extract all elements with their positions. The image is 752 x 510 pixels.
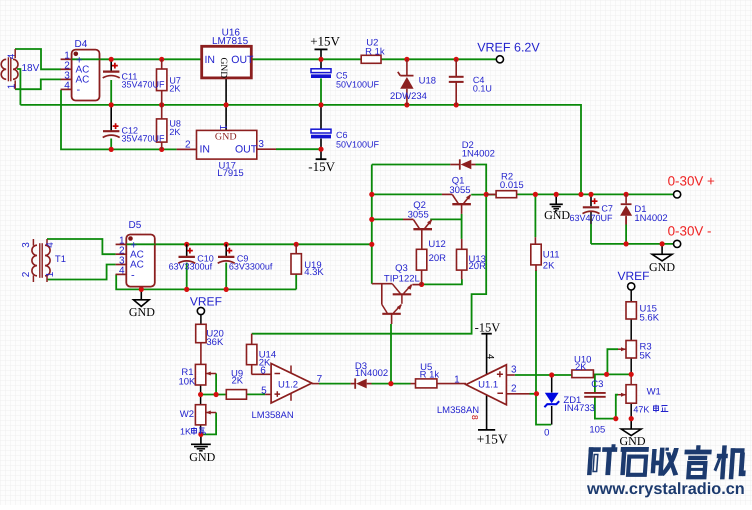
resistor U2 R 1k [361,55,381,63]
svg-text:GND: GND [620,434,646,448]
svg-text:2: 2 [21,271,32,277]
C7 plus [592,198,598,204]
svg-text:GND: GND [218,58,228,79]
svg-text:0.1U: 0.1U [473,83,492,93]
bridge rectifier D5 [126,235,155,287]
lead U14 bottom [251,365,253,375]
wire raw + rail D5 pin1 to bus [127,243,372,245]
wire U9 to U1.2 pin5 [247,393,266,395]
svg-text:3: 3 [21,242,32,248]
wire D2 cathode down to emitter node [476,165,487,195]
junction (407,105) [404,102,409,107]
svg-text:1: 1 [6,83,17,89]
lead U20 to R1 [200,343,202,365]
svg-text:50V100UF: 50V100UF [336,139,380,149]
resistor U15 5.6K [626,302,636,319]
ground GND triangle under W1 [630,419,632,429]
svg-text:LM7815: LM7815 [212,36,249,47]
lead D1 bottom stub [625,217,627,225]
wire raw + vertical bus x=372 [371,165,373,284]
lead U7 bottom [161,91,163,105]
svg-text:OUT: OUT [231,54,254,66]
C10 plates [179,256,195,258]
svg-text:U11: U11 [543,250,560,261]
lead W2 bottom [200,425,202,435]
wire U17 OUT to -15V node [276,148,321,150]
svg-text:1: 1 [454,375,460,386]
lead U13 top [461,239,463,249]
capacitor C11 35V470UF [103,70,119,72]
D2 body [459,159,461,169]
svg-text:7: 7 [317,374,323,385]
junction (662,244) [660,241,665,246]
wire C9 bottom lead [225,263,227,290]
lead Q2 collector [403,218,413,220]
wire R1 bottom node to U9 [201,394,227,396]
svg-text:47K: 47K [633,405,649,415]
svg-text:GND: GND [215,131,237,142]
lead U15 to R3 [630,319,632,341]
transformer T1 [32,245,37,276]
junction (391,384) [388,381,393,386]
svg-text:T1: T1 [55,254,66,265]
zener diode U18 2DW234 [406,59,408,75]
potentiometer R3 5K [626,341,636,359]
wire raw - rail D5 pin4 under caps [116,274,296,289]
wire U13 bottom to Q3 emitter node [422,279,462,284]
svg-text:63V470UF: 63V470UF [570,213,614,223]
junction (616,419) [613,416,618,421]
wire Q1 base down to U13 top [461,214,463,239]
U1.1 pin3 stub [506,374,514,376]
junction (226,105) [224,102,229,107]
junction (536,394) [534,391,539,396]
wire feedback from emitter node to U14 [252,194,487,333]
U1.2 pin8 stub [290,366,292,374]
wire C3 top lead [594,375,596,392]
junction (226,289) [224,287,229,292]
junction (552,375) [549,372,554,377]
U1.1 pin1 wire [437,383,466,385]
svg-text:10K: 10K [178,376,196,387]
junction (407,59) [404,57,409,62]
lead C11 top (black) [110,59,112,71]
junction (556,194) [554,192,559,197]
U17 pin2 stub [177,148,197,150]
wire C7 bottom lead [590,224,592,244]
svg-text:GND: GND [649,260,675,274]
junction (372,244) [369,242,374,247]
svg-text:L7915: L7915 [217,168,243,179]
svg-text:1N4002: 1N4002 [355,368,388,379]
wire T2 pin1 to D4 pin3 [15,79,61,89]
svg-text:4: 4 [45,242,56,248]
junction (201,434) [198,432,203,437]
junction (372,219) [369,217,374,222]
svg-text:63V3300uf: 63V3300uf [229,262,273,272]
wire center tap down to 0V rail [17,69,20,105]
potentiometer R1 10K [195,364,205,385]
wire U19 bottom lead [295,274,297,289]
lead R2 left [486,193,496,195]
U17 pin3 stub [257,148,276,150]
svg-text:0: 0 [544,427,549,438]
label 47K dianya [654,405,669,413]
svg-text:6: 6 [260,365,266,376]
lead W1 top [630,374,632,384]
watermark logo kuang shi shou yin ji [587,444,748,479]
VREF terminal stub right [630,290,632,302]
lead U7 top [161,59,163,69]
svg-text:GND: GND [189,450,215,464]
svg-text:3055: 3055 [408,209,429,220]
ground GND triangle at -OUT [661,244,663,254]
transistor Q1 3055 [452,203,471,205]
svg-text:2: 2 [511,384,517,395]
op-amp U1.1 LM358AN [466,365,506,405]
ground GND earth at output rail [555,194,557,204]
U1.1 pin2 stub [506,393,529,395]
junction (456,59) [454,57,459,62]
wire D4 + output through symbol [72,58,100,60]
lead Q1 collector [442,193,452,195]
wire U11 bottom to U1.1 pin2 and ZD1 return [536,270,551,425]
lead U11 bottom [535,265,537,271]
lead Q1 base [461,204,463,214]
svg-text:4: 4 [6,53,17,59]
terminal VREF 6.2V [496,56,503,63]
ground GND earth under W2 [200,434,202,444]
junction (162,149) [159,147,164,152]
capacitor C4 0.1U [455,59,457,76]
junction (321,105) [318,102,323,107]
wire C11 bottom lead [110,80,112,105]
wire bus to Q1 collector [372,193,442,195]
resistor U5 R 1k [416,379,437,388]
resistor U19 4.3K [291,254,301,274]
junction (631,419) [629,416,634,421]
junction (187,244) [184,242,189,247]
svg-text:5.6K: 5.6K [640,313,660,324]
bar +15V [315,48,328,50]
regulator U17 L7915 [197,130,257,159]
capacitor C9 63V3300uf [225,244,227,256]
D5 pin 2 stub [116,253,127,255]
svg-text:Q3: Q3 [395,263,408,274]
lead C12 top (black) [110,105,112,131]
svg-text:18V: 18V [22,63,40,74]
C9 plus [227,248,233,254]
lead U12 bottom [421,270,423,284]
junction (201,394) [198,392,203,397]
junction (111,105) [109,102,114,107]
svg-text:4: 4 [119,266,125,277]
R1 wiper [206,373,216,375]
svg-text:LM358AN: LM358AN [252,410,294,421]
junction (111,149) [109,147,114,152]
lead C5 top [320,59,322,68]
power symbol +15V top [320,49,322,59]
wire output + rail after R2 [517,193,674,195]
bar -15V [316,158,327,160]
svg-text:W1: W1 [647,386,661,397]
junction (535,194) [533,192,538,197]
svg-text:35V470UF: 35V470UF [122,80,166,90]
svg-text:U1.2: U1.2 [278,379,298,390]
R3 wiper [618,348,626,350]
wire Q3 base down to drive node [390,324,392,384]
terminal 0-30V - [674,240,681,247]
wire W2 wiper down [201,413,216,435]
op-amp U1.2 LM358AN [271,364,312,404]
wire T1 pin4 to D5 pin2 [47,239,116,254]
svg-text:3: 3 [258,139,264,150]
U1.2 pin5 stub [265,393,271,395]
wire R1 wiper down [215,374,217,395]
svg-text:VREF: VREF [190,294,222,308]
wire +15V rail U16 OUT to VREF terminal [251,58,496,60]
lead D1 top [625,194,627,203]
capacitor C10 63V3300uf [186,244,188,256]
junction (372,194) [369,192,374,197]
lead ZD1 bottom [551,406,553,425]
capacitor C12 35V470UF [103,130,119,132]
capacitor C6 50V100UF [311,129,331,133]
transistor Q3 TIP122L [372,283,392,285]
W1 wiper [618,394,626,396]
svg-text:4: 4 [64,81,70,92]
C12 plus [113,123,119,129]
svg-text:1: 1 [217,125,228,131]
resistor U11 2K [531,244,541,265]
svg-text:U12: U12 [428,239,445,250]
lead U8 bottom [161,142,163,149]
junction (321,59) [318,57,323,62]
svg-text:3055: 3055 [449,185,470,196]
svg-text:GND: GND [129,305,155,319]
wire U1.2 pin7 to D3 [319,383,351,385]
junction (631,374) [629,372,634,377]
junction (321,149) [318,147,323,152]
lead C7 top (black) [590,194,592,206]
lead R1 bottom (black) [200,385,202,395]
wire T2 pin4 to D4 pin2 [15,49,61,69]
wire R3 wiper elbow [607,349,618,374]
resistor U10 2K [572,370,594,378]
svg-text:OUT: OUT [235,143,258,155]
wire output - rail [591,243,674,245]
svg-text:2K: 2K [232,375,244,386]
terminal VREF left [197,307,204,314]
wire W1 wiper elbow [616,395,618,419]
junction (187,289) [184,287,189,292]
U1.2 pin4 stub [290,393,292,401]
C9 plates [218,256,234,258]
bar +15V opamp [478,429,495,431]
transformer 18V (left edge) [1,59,6,79]
D5 pin1 orientation dot [128,236,133,241]
lead U8 top [161,105,163,119]
lead C6 top [320,105,322,129]
wire C10 bottom lead [186,263,188,290]
lead W2 top [200,395,202,405]
svg-text:C3: C3 [591,379,603,390]
terminal VREF right [628,283,635,290]
svg-text:1K: 1K [180,426,191,436]
wire D1 bottom lead [625,225,627,244]
svg-text:20R: 20R [469,261,487,272]
svg-text:VREF 6.2V: VREF 6.2V [477,40,540,54]
svg-text:3: 3 [511,364,517,375]
lead U16 GND pin [225,78,227,105]
wire T1 pin1 to D5 pin3 [47,265,116,280]
svg-text:R 1k: R 1k [420,370,440,381]
svg-text:0.015: 0.015 [500,180,524,191]
resistor U9 2K [226,390,246,400]
power symbol +15V below U1.1 pin8 [486,395,488,430]
D5 pin 1 stub [116,243,127,245]
lead C6 bottom [320,139,322,150]
junction (456,105) [454,102,459,107]
svg-text:-: - [77,84,81,96]
bridge rectifier D4 [72,50,100,101]
svg-text:105: 105 [589,425,605,436]
svg-text:GND: GND [544,208,570,222]
D4 pin 3 stub [61,78,72,80]
junction (216,394) [214,392,219,397]
capacitor C7 63V470UF [583,206,599,208]
svg-text:1N4002: 1N4002 [634,213,667,224]
wire Q1 emitter to R2 [471,194,496,196]
svg-text:0-30V -: 0-30V - [668,224,712,239]
svg-text:20R: 20R [429,253,447,264]
lead W1 bottom [630,403,632,418]
terminal 0-30V + [674,191,681,198]
D5 pin 3 stub [116,264,127,266]
junction (626,244) [624,241,629,246]
lead R3 bottom [630,358,632,374]
svg-text:0-30V +: 0-30V + [668,174,715,189]
svg-text:-15V: -15V [475,320,501,334]
lead U11 top [534,237,536,244]
wire U1.1 pin3 to U10 [515,374,572,376]
svg-text:TIP122L: TIP122L [384,273,420,284]
junction (296,244) [294,242,299,247]
capacitor C5 50V100UF [311,69,331,73]
potentiometer W2 1K [195,405,205,425]
svg-text:1: 1 [45,271,56,277]
D4 pin 4 stub [61,88,72,90]
wire bus to Q2 collector [372,218,403,220]
svg-text:50V100UF: 50V100UF [336,80,380,90]
junction (591,194) [588,192,593,197]
bar -15V opamp [481,333,491,335]
lead C7 arc to green [590,211,592,224]
label 1K dianliu [192,427,206,435]
regulator U16 LM7815 [202,46,252,78]
wire D5 + output through symbol [127,243,155,245]
VREF terminal stub left [200,315,202,324]
svg-text:63V3300uf: 63V3300uf [169,262,213,272]
svg-text:C7: C7 [601,203,613,213]
wire output node down to U11 [534,194,536,237]
potentiometer W1 47K [626,385,636,404]
diode D3 1N4002 [351,383,356,385]
D3 body [354,378,356,388]
junction (226,244) [224,242,229,247]
diode D2 1N4002 [450,164,460,166]
D5 pin 4 stub [116,273,127,275]
svg-text:2DW234: 2DW234 [390,91,427,102]
zener diode ZD1 IN4733 [545,393,559,403]
svg-text:+15V: +15V [310,34,340,49]
svg-text:2K: 2K [575,362,587,373]
svg-text:4.3K: 4.3K [304,267,324,278]
svg-text:1N4002: 1N4002 [462,148,495,159]
lead U19 top [295,244,297,253]
resistor U12 20R [416,249,426,270]
resistor U20 36K [196,324,206,342]
svg-text:5K: 5K [640,351,652,362]
svg-text:4: 4 [485,354,496,359]
resistor U13 20R [457,249,467,270]
svg-text:C6: C6 [336,130,348,140]
lead U13 bottom [461,270,463,279]
wire C12 bottom lead [110,139,112,150]
resistor U14 2K [247,344,257,364]
C11 plus [112,63,118,69]
svg-text:VREF: VREF [618,269,650,283]
D4 pin1 orientation dot [74,52,79,57]
U1.2 pin7 stub [312,383,319,385]
wire D3 to U5 and Q3 base node [372,383,411,385]
D4 pin 1 stub [61,58,72,60]
junction (162,59) [159,57,164,62]
lead U17 pin1 [225,105,227,130]
junction (626,194) [624,192,629,197]
svg-text:8: 8 [470,415,480,420]
U1.2 pin6 wire [252,373,272,375]
junction (607,374) [604,372,609,377]
wire pin2 stub join [530,393,537,395]
lead Q2 base to U12 [421,229,423,249]
resistor U8 2K [157,119,167,142]
wire to D2 anode side [372,164,451,166]
svg-text:W2: W2 [180,409,194,420]
svg-text:2: 2 [185,140,191,151]
svg-text:-15V: -15V [308,159,335,174]
svg-text:D4: D4 [75,39,88,50]
wire Q2 emitter to Q1 base node [430,218,461,220]
C10 plus [187,248,193,254]
wire U10 to R3 bottom node [593,373,631,375]
svg-text:2K: 2K [169,84,180,94]
svg-text:+15V: +15V [477,432,508,447]
svg-text:R 1k: R 1k [365,46,385,57]
svg-text:IN: IN [200,143,211,155]
wire +18V rail from D4 pin1 to U16 IN [72,58,202,60]
svg-text:-: - [131,269,135,281]
svg-text:2K: 2K [543,260,555,271]
lead ZD1 top [551,377,553,393]
junction (111,59) [109,57,114,62]
svg-text:U18: U18 [419,75,436,86]
svg-text:36K: 36K [206,337,224,348]
capacitor C3 [584,392,606,394]
svg-text:U1.1: U1.1 [478,379,498,390]
svg-text:2K: 2K [169,127,180,137]
wire -18V rail from D4 pin4 to U17 IN [61,90,177,149]
